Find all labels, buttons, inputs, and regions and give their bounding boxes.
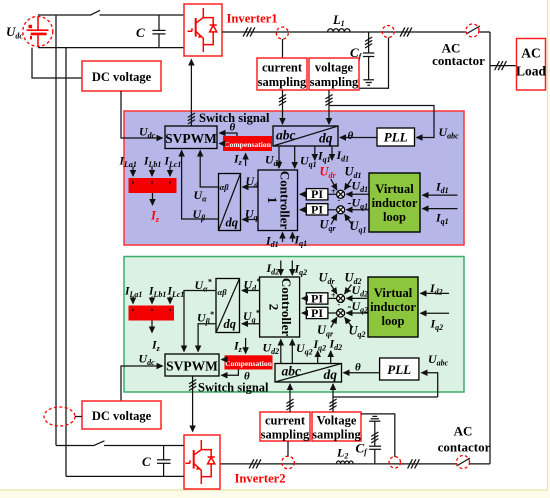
inverter U1 IGBT symbol	[188, 8, 217, 52]
svg-text:Compensation: Compensation	[225, 359, 273, 368]
U_abc label 1	[439, 125, 460, 141]
PI box 4	[306, 306, 328, 320]
svg-text:αβ: αβ	[218, 287, 228, 297]
wire: U_d11 from virtual inductor loop	[347, 179, 372, 195]
theta into SVPWM1	[220, 122, 238, 137]
wire: battery to DC voltage box	[32, 48, 82, 78]
svg-text:SVPWM: SVPWM	[165, 131, 217, 146]
svg-text:+: +	[331, 291, 336, 300]
inverter U2 IGBT symbol	[186, 440, 215, 484]
svg-text:Inverter2: Inverter2	[235, 472, 286, 486]
wire: bottom DC rail (bottom)	[66, 475, 184, 477]
I_z label (red, block1)	[150, 209, 160, 225]
wire: U_q* from controller2	[242, 309, 261, 325]
U_d2 into junction3	[338, 271, 362, 310]
svg-text:DC voltage: DC voltage	[92, 70, 152, 84]
Inverter2 label	[235, 472, 286, 486]
svg-text:dq: dq	[319, 131, 333, 146]
wire: top DC bus with switch	[38, 10, 184, 15]
svg-text:+: +	[331, 318, 336, 327]
wire: I_d2 stub from abc/dq2	[329, 337, 343, 365]
capacitor C (top DC link)	[136, 15, 166, 48]
Virtual inductor loop box 2	[368, 277, 418, 337]
Controller 1 box	[258, 170, 298, 231]
DC source 2 position (red dashed ellipse)	[44, 407, 75, 426]
svg-text:current: current	[265, 414, 306, 428]
current sensor block 2 (red)	[129, 306, 175, 321]
svg-text:current: current	[262, 61, 303, 75]
wire: U_abc branch to PLL1	[329, 106, 434, 138]
svg-text:inductor: inductor	[370, 300, 416, 314]
wire: I_q1 stub from abc/dq1	[315, 146, 331, 164]
I_La1 I_Lb1 I_Lc1 labels (block2)	[124, 286, 184, 300]
svg-text:dq: dq	[224, 317, 237, 331]
wire: left DC bus down to inverter2 (x=56)	[55, 15, 57, 446]
svg-text:αβ: αβ	[220, 182, 230, 192]
Compensation box 1	[223, 136, 272, 151]
current sensor block 1 (red)	[129, 178, 177, 193]
wire: gate drive up to inverter1	[188, 60, 195, 127]
svg-text:2: 2	[267, 304, 282, 311]
PI box 2	[306, 202, 328, 216]
svg-text:PI: PI	[311, 291, 323, 305]
svg-text:loop: loop	[382, 314, 405, 328]
current sampling box (top)	[257, 58, 307, 90]
DC voltage box (top)	[82, 61, 161, 91]
wire: U_q11 from virtual inductor loop	[347, 196, 372, 212]
svg-text:Compensation: Compensation	[224, 140, 272, 149]
measurement point (red dashed circle) before contactor2	[389, 457, 400, 468]
abc/dq transform box 1	[273, 126, 338, 146]
svg-text:Virtual: Virtual	[375, 182, 414, 196]
wire: PI2 to controller1	[300, 209, 306, 211]
Inverter1 label	[227, 12, 278, 26]
filter capacitor C_f (top)	[350, 32, 374, 80]
wire: PI3 to controller2	[302, 297, 306, 299]
svg-text:dq: dq	[226, 216, 239, 230]
svg-text:θ: θ	[230, 122, 236, 134]
svg-text:Virtual: Virtual	[374, 286, 413, 300]
SVPWM box 2	[165, 354, 219, 376]
U_dc label (block2)	[139, 352, 156, 368]
svg-text:AC: AC	[454, 424, 473, 439]
theta from PLL2 to abc/dq2	[344, 362, 380, 374]
battery (DC source) in red dashed circle	[23, 16, 53, 47]
svg-text:loop: loop	[383, 210, 406, 224]
wire: I_d2 into VIL2	[421, 281, 450, 297]
svg-text:SVPWM: SVPWM	[166, 359, 218, 374]
wire: bottom DC bus	[38, 47, 184, 49]
svg-text:sampling: sampling	[261, 428, 310, 442]
svg-text:abc: abc	[282, 364, 302, 379]
wires: phase currents into sensor block1	[133, 167, 170, 177]
wire: U_alpha* to SVPWM2	[184, 278, 216, 352]
inverter U1 box	[184, 4, 222, 56]
svg-text:PI: PI	[311, 306, 323, 320]
wire: U_q from controller1	[243, 207, 259, 223]
wire: PI4 to controller2	[302, 312, 306, 314]
wire: U_q1 into controller1	[295, 146, 317, 169]
alpha-beta/dq box 2	[216, 279, 240, 333]
voltage sampling box (top)	[309, 58, 359, 90]
wire: current sampling2 up to abc/dq2	[286, 384, 293, 412]
three-phase slash before contactor2	[408, 459, 420, 468]
svg-text:C: C	[136, 25, 145, 40]
svg-text:abc: abc	[276, 128, 296, 143]
svg-text:Load: Load	[516, 64, 547, 79]
svg-text:Voltage: Voltage	[317, 414, 357, 428]
theta into SVPWM2	[222, 370, 251, 383]
svg-text:PLL: PLL	[387, 362, 411, 377]
Switch signal label (top)	[199, 111, 270, 125]
svg-text:θ: θ	[348, 130, 354, 142]
AC contactor label (bottom)	[438, 424, 491, 455]
wire: voltage sampling2 branch to PLL2	[333, 396, 438, 398]
wire: bottom DC rail (top) with switch	[56, 441, 184, 446]
svg-text:PI: PI	[311, 187, 323, 201]
theta from PLL1 to abc/dq1	[340, 130, 377, 142]
wire: current sampling2 down to measurement point	[287, 441, 289, 457]
svg-text:-: -	[345, 318, 348, 327]
wire: sensor2 to I_z	[151, 321, 153, 333]
SVPWM box 1	[165, 126, 217, 149]
wire: U_q22 from VIL2	[347, 299, 373, 315]
svg-text:voltage: voltage	[315, 61, 354, 75]
svg-text:C: C	[142, 454, 151, 469]
abc/dq transform box 2	[275, 364, 342, 383]
wire: right AC bus	[489, 32, 491, 464]
PLL box 1	[377, 128, 415, 146]
wire: I_d1 into VIL1	[423, 180, 458, 196]
wire: U_alpha to SVPWM1	[194, 151, 219, 204]
wire: U_beta to SVPWM1	[182, 151, 219, 223]
svg-text:1: 1	[265, 197, 280, 204]
Voltage sampling box (bottom)	[312, 412, 362, 442]
svg-text:sampling: sampling	[312, 428, 361, 442]
summing junction 4	[328, 309, 345, 317]
measurement point (red dashed circle) after inverter1	[276, 27, 288, 39]
summing junction 1	[328, 190, 345, 198]
I_z label (block2)	[151, 338, 161, 354]
inductor L2	[336, 446, 353, 464]
I_z into compensation1	[233, 152, 246, 168]
I_La1 I_Lb1 I_Lc1 labels (block1)	[119, 156, 182, 170]
wire: compensation2 to SVPWM2	[222, 359, 225, 361]
capacitor C (bottom DC link)	[142, 446, 171, 477]
Compensation box 2	[225, 355, 273, 369]
wire: measurement point to current sampling	[282, 39, 284, 58]
I_z into compensation2	[233, 338, 246, 354]
wire: U_d* from controller2	[242, 277, 261, 293]
U_d1 into junction1	[338, 165, 362, 205]
U_qr into junction4	[317, 318, 337, 339]
U_abc label 2	[428, 352, 449, 368]
wire: U_q2 into controller2 bottom	[292, 340, 312, 365]
AC contactor label (top)	[432, 41, 485, 69]
wire: left DC bus down to inverter2 (x=66)	[65, 48, 67, 477]
wire: U_abc branch to PLL2	[422, 373, 438, 397]
Switch signal label (bottom)	[198, 381, 269, 395]
three-phase slash after measurement point	[400, 27, 412, 36]
wire: I_d1 into controller1 bottom	[265, 233, 283, 250]
DC voltage box (bottom)	[82, 401, 161, 429]
wire: voltage sampling2 up to abc/dq2	[329, 384, 336, 412]
three-phase slash after inverter2	[249, 459, 261, 468]
wires: phase currents into sensor block2	[133, 297, 170, 304]
wire: current sampling output to abc/dq1	[279, 90, 286, 124]
measurement point (red dashed circle) after inverter2	[282, 456, 295, 469]
wire: I_d1 stub from abc/dq1	[332, 146, 349, 164]
measurement point (red dashed circle) before contactor	[382, 26, 394, 38]
svg-text:Inverter1: Inverter1	[227, 12, 278, 26]
wire: top AC line	[222, 26, 490, 34]
wire: bottom AC line	[220, 458, 490, 466]
PI box 1	[306, 187, 328, 201]
AC contactor (bottom, switch in red dashed circle)	[457, 456, 470, 469]
svg-text:contactor: contactor	[438, 440, 491, 455]
wire: U_d22 from VIL2	[347, 283, 373, 299]
svg-text:+: +	[331, 214, 336, 223]
U_q2 into junction4	[345, 318, 366, 340]
current sampling box (bottom)	[260, 412, 310, 442]
svg-text:inductor: inductor	[372, 196, 418, 210]
control block 1 (purple)	[124, 111, 464, 245]
wire: I_q2 into controller2 top	[292, 261, 307, 278]
U_q1 into junction2	[345, 215, 367, 235]
svg-text:-: -	[338, 300, 341, 309]
AC contactor (top, switch in red dashed circle)	[466, 24, 479, 37]
Virtual inductor loop box 1	[369, 173, 420, 232]
svg-text:AC: AC	[521, 46, 541, 61]
alpha-beta/dq box 1	[219, 174, 241, 231]
U_dr label (block2)	[319, 271, 337, 301]
svg-text:Switch signal: Switch signal	[198, 381, 269, 395]
wire: voltage tap (bottom)	[361, 414, 395, 457]
summing junction 3	[328, 294, 345, 302]
wire: ellipse to DC voltage box	[75, 416, 82, 418]
wire: voltage tap to voltage sampling	[360, 38, 389, 89]
svg-text:-: -	[338, 196, 341, 205]
Controller 2 box	[260, 277, 300, 337]
svg-text:sampling: sampling	[310, 75, 359, 89]
wire: compensation1 to SVPWM1	[220, 143, 224, 145]
wire: PI1 to controller1	[300, 193, 306, 195]
svg-text:dq: dq	[324, 367, 338, 382]
U_dr reference label (red)	[320, 165, 337, 197]
wire: U_beta* to SVPWM2	[197, 310, 216, 352]
wire: I_q1 into controller1 bottom	[293, 233, 308, 249]
wire: I_q1 into VIL1	[423, 209, 458, 226]
PI box 3	[306, 291, 328, 305]
wire: I_q2 stub from abc/dq2	[313, 337, 327, 364]
U_dc label (block 1)	[139, 125, 156, 141]
wire: DC voltage2 to SVPWM2 (U_dc)	[121, 366, 163, 401]
wire: DC voltage to SVPWM1 (U_dc)	[121, 91, 163, 138]
control block 2 (green)	[124, 257, 464, 393]
three-phase slash on AC line after inverter1	[243, 27, 255, 36]
ground (top filter)	[363, 80, 374, 85]
U_qr into junction2	[320, 214, 337, 234]
filter capacitor C_f (bottom)	[356, 432, 382, 464]
wire: U_d1 into controller1	[265, 146, 282, 168]
svg-text:contactor: contactor	[432, 53, 485, 68]
AC Load box	[516, 39, 547, 91]
svg-text:sampling: sampling	[258, 75, 307, 89]
wire: gate drive down to inverter2	[189, 376, 196, 432]
wire: to AC load	[490, 61, 517, 70]
svg-text:+: +	[331, 187, 336, 196]
inverter U2 box	[184, 435, 220, 489]
wire: U_d from controller1	[243, 174, 260, 190]
wire: I_q2 into VIL2	[421, 313, 450, 332]
wire: U_d2 into controller2 bottom	[263, 340, 281, 365]
svg-text:θ: θ	[355, 362, 361, 374]
wire: I_d2 into controller2 top	[266, 261, 281, 277]
svg-text:PLL: PLL	[384, 130, 408, 145]
wire: voltage sampling output to abc/dq1	[325, 90, 332, 124]
summing junction 2	[328, 206, 345, 214]
inductor L1	[328, 13, 350, 32]
svg-text:-: -	[345, 215, 348, 224]
PLL box 2	[380, 358, 419, 380]
DC source U_dc label	[6, 24, 23, 41]
svg-text:DC voltage: DC voltage	[92, 409, 152, 423]
ground (bottom filter, inverted)	[369, 416, 380, 446]
wire: sensor1 to I_z	[152, 193, 154, 205]
svg-text:PI: PI	[311, 202, 323, 216]
